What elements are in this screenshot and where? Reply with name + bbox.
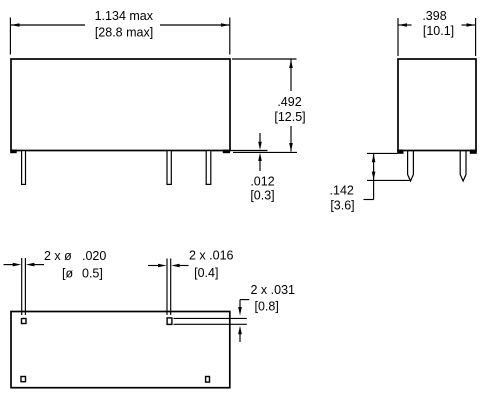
svg-text:[0.8]: [0.8] <box>255 300 279 314</box>
svg-text:[0.4]: [0.4] <box>194 266 218 280</box>
svg-text:2 x .016: 2 x .016 <box>189 249 234 263</box>
svg-text:[12.5]: [12.5] <box>274 110 305 124</box>
svg-text:.492: .492 <box>277 95 301 109</box>
svg-text:.012: .012 <box>250 174 274 188</box>
svg-text:[ø: [ø <box>62 267 73 281</box>
svg-text:[0.3]: [0.3] <box>250 189 274 203</box>
svg-text:0.5]: 0.5] <box>82 267 103 281</box>
svg-text:.398: .398 <box>422 9 446 23</box>
svg-text:[3.6]: [3.6] <box>330 198 354 212</box>
svg-text:1.134 max: 1.134 max <box>95 9 154 23</box>
svg-text:.020: .020 <box>82 249 106 263</box>
svg-text:.142: .142 <box>330 184 354 198</box>
svg-text:2 x ø: 2 x ø <box>44 249 72 263</box>
svg-text:[28.8 max]: [28.8 max] <box>95 25 153 39</box>
svg-text:2 x .031: 2 x .031 <box>251 283 296 297</box>
svg-text:[10.1]: [10.1] <box>423 24 454 38</box>
